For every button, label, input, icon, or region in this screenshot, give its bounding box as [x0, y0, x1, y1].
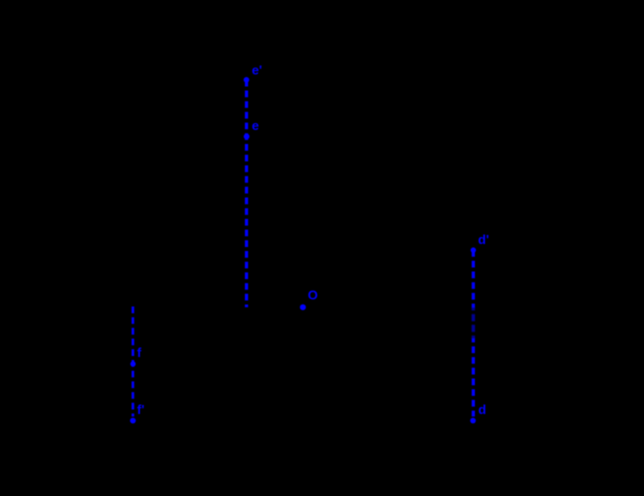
svg-text:e': e' — [252, 62, 262, 77]
node O — [300, 288, 318, 311]
svg-text:f: f — [137, 345, 142, 360]
node d — [470, 402, 486, 423]
node e — [244, 118, 259, 139]
svg-text:d: d — [478, 402, 486, 417]
svg-text:e: e — [252, 118, 259, 133]
svg-text:O: O — [308, 288, 318, 303]
node d' — [471, 232, 489, 253]
node f' — [130, 402, 144, 424]
svg-text:d': d' — [478, 232, 489, 247]
node f — [130, 345, 142, 367]
wire: dashed recall line e'-e (vertical) — [245, 80, 248, 307]
svg-text:f': f' — [137, 402, 144, 417]
wire: dashed recall line d'-d (vertical) — [471, 250, 475, 416]
node e' — [244, 62, 263, 82]
wire: dashed recall line f-f' (vertical) — [132, 307, 135, 417]
